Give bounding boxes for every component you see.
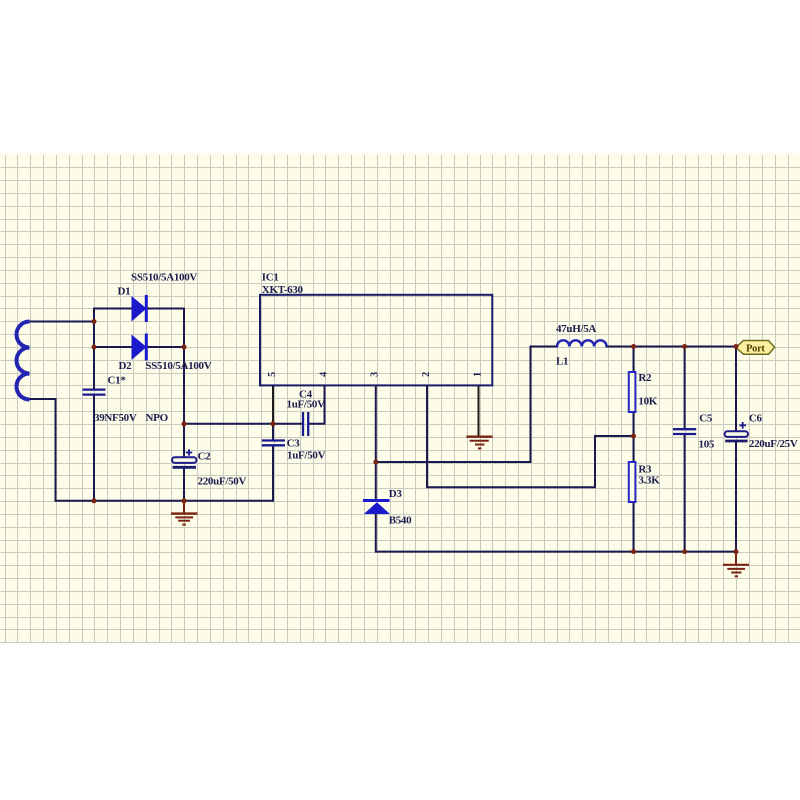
pin 1 stub	[478, 386, 480, 437]
capacitor C2 (polarized)	[172, 449, 197, 467]
wire coil bottom down to rail	[30, 399, 56, 501]
diode D3	[363, 499, 390, 514]
junction R2 R3 divider	[631, 434, 636, 439]
svg-text:C3: C3	[287, 438, 301, 450]
junction C6 bottom	[734, 549, 739, 554]
svg-text:5: 5	[267, 372, 278, 377]
svg-text:D1: D1	[118, 286, 131, 298]
wire pin2 feedback route	[427, 386, 634, 488]
svg-text:3: 3	[370, 372, 381, 377]
wire left vertical bus	[93, 309, 95, 390]
wire D2 anode branch	[94, 346, 132, 348]
wire C1 bottom to ground rail	[93, 395, 95, 501]
svg-text:SS510/5A100V: SS510/5A100V	[145, 360, 211, 372]
capacitor C4 plates	[303, 412, 308, 436]
junction D2 right	[182, 345, 187, 350]
ground GND3 (output)	[723, 552, 749, 577]
wire node B horizontal to C4	[184, 423, 302, 425]
port flag Port	[736, 341, 775, 355]
wire L1 output rail	[607, 346, 736, 348]
svg-text:220uF/25V: 220uF/25V	[749, 438, 798, 450]
svg-text:SS510/5A100V: SS510/5A100V	[131, 272, 197, 284]
wire L1 left lead	[531, 346, 558, 348]
svg-text:L1: L1	[556, 355, 568, 367]
wire D3 anode down	[375, 514, 377, 552]
wire D1 cathode to right bus	[148, 308, 184, 310]
diode D2	[132, 334, 148, 361]
svg-text:D3: D3	[389, 488, 403, 500]
junction D2 left	[92, 345, 97, 350]
svg-text:C1*: C1*	[108, 375, 127, 387]
wire pin3 to D3 node	[375, 386, 377, 501]
svg-text:4: 4	[318, 372, 329, 377]
svg-text:2: 2	[421, 372, 432, 377]
diode D1	[132, 295, 148, 322]
svg-text:105: 105	[699, 439, 715, 451]
wire C3 top lead	[272, 424, 274, 440]
capacitor C1 plates	[83, 390, 106, 395]
junction node A (coil top)	[92, 319, 97, 324]
svg-text:C2: C2	[198, 451, 212, 463]
junction R3 bottom	[631, 549, 636, 554]
inductor coil (primary winding)	[17, 322, 30, 400]
wire coil top to node A	[30, 321, 95, 323]
svg-text:1uF/50V: 1uF/50V	[287, 450, 326, 462]
ground GND1 (under C2)	[171, 501, 198, 525]
junction C5 bottom	[682, 549, 687, 554]
capacitor C5 plates	[673, 429, 696, 434]
svg-text:47uH/5A: 47uH/5A	[556, 323, 596, 335]
inductor L1	[557, 340, 607, 346]
svg-text:220uF/50V: 220uF/50V	[198, 476, 247, 488]
svg-text:3.3K: 3.3K	[638, 474, 660, 486]
wire right vertical bus to C2	[183, 309, 185, 458]
capacitor C3 plates	[262, 441, 285, 446]
wire R2 leads	[633, 347, 635, 437]
junction L1 out	[631, 344, 636, 349]
svg-text:C5: C5	[699, 413, 713, 425]
junction port node	[734, 344, 739, 349]
IC1 box	[260, 295, 492, 386]
svg-text:Port: Port	[746, 343, 765, 354]
junction node B	[182, 421, 187, 426]
pin 5 stub	[272, 386, 274, 424]
capacitor C6 (polarized)	[725, 422, 748, 441]
wire bottom ground rail	[376, 551, 736, 553]
wire C5 leads	[684, 347, 686, 552]
svg-text:1uF/50V: 1uF/50V	[287, 399, 326, 411]
resistor R2 body	[629, 372, 636, 412]
svg-text:XKT-630: XKT-630	[262, 284, 304, 296]
wire C2 to rail	[183, 468, 185, 501]
resistor R3 body	[629, 462, 636, 502]
svg-text:10K: 10K	[638, 396, 657, 408]
svg-text:C6: C6	[749, 413, 763, 425]
svg-text:39NF50V: 39NF50V	[94, 412, 137, 424]
junction C5 top	[682, 344, 687, 349]
svg-text:NPO: NPO	[146, 412, 169, 424]
wire D1 anode branch	[94, 308, 132, 310]
wire left ground rail	[56, 500, 274, 502]
svg-text:1: 1	[472, 372, 483, 377]
wire D3 node to L1 input	[376, 347, 531, 463]
junction D3 node	[373, 460, 378, 465]
svg-text:R2: R2	[638, 372, 652, 384]
wire C4 to pin4	[309, 386, 325, 424]
junction C2 rail	[182, 498, 187, 503]
wire C6 leads	[735, 347, 737, 552]
wire C3 bottom to rail	[272, 446, 274, 501]
junction pin5 node	[271, 421, 276, 426]
svg-text:D2: D2	[119, 360, 133, 372]
svg-text:B540: B540	[389, 515, 412, 527]
ground GND2 (pin1)	[466, 437, 492, 449]
junction C1 rail	[92, 498, 97, 503]
svg-text:IC1: IC1	[262, 271, 279, 283]
wire D2 cathode to right bus	[148, 346, 184, 348]
wire R3 leads	[633, 436, 635, 552]
